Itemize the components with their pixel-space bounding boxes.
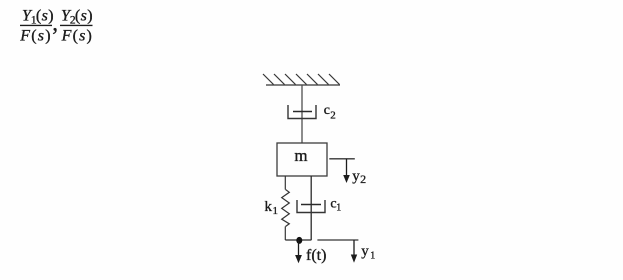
damper C2 piston — [293, 111, 312, 113]
svg-text:Y2(s): Y2(s) — [61, 7, 93, 26]
damper C1 piston — [301, 204, 321, 206]
svg-text:y: y — [361, 244, 369, 260]
rod: mass to spring K1 — [284, 176, 286, 190]
svg-text:1: 1 — [336, 203, 341, 214]
svg-text:,: , — [52, 10, 58, 35]
svg-text:F(s): F(s) — [61, 27, 92, 44]
formula fraction Y2(s)/F(s) — [60, 7, 93, 44]
damper C1 cylinder — [297, 200, 325, 213]
rod: ceiling through damper C2 to mass — [301, 85, 303, 143]
svg-text:2: 2 — [330, 109, 336, 121]
svg-text:c: c — [324, 103, 330, 118]
svg-text:f(t): f(t) — [306, 247, 326, 264]
svg-text:2: 2 — [360, 172, 366, 186]
ceiling line — [266, 84, 340, 86]
svg-text:k: k — [265, 199, 273, 215]
y1 reference line — [317, 239, 358, 241]
svg-text:Y1(s): Y1(s) — [22, 7, 54, 26]
y1 arrow — [351, 240, 357, 263]
mass block m — [277, 143, 327, 176]
svg-text:1: 1 — [370, 251, 375, 262]
rod: spring K1 to node — [284, 227, 286, 241]
node junction dot — [296, 237, 302, 244]
y2 reference line — [329, 158, 355, 160]
svg-text:F(s): F(s) — [19, 27, 50, 44]
svg-text:y: y — [352, 168, 360, 184]
damper C2 cylinder — [288, 105, 316, 119]
formula fraction Y1(s)/F(s) — [19, 7, 53, 44]
ceiling hatching (fixed support) — [263, 74, 340, 85]
f(t) force arrow — [295, 240, 302, 263]
svg-text:1: 1 — [273, 205, 279, 217]
y2 arrow — [343, 159, 350, 183]
spring K1 — [282, 190, 290, 227]
bottom connector wire — [285, 239, 311, 241]
svg-text:m: m — [294, 146, 307, 165]
rod: mass through damper C1 to node — [310, 176, 312, 240]
